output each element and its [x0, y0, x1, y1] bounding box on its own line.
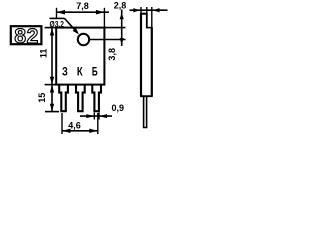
side view body	[140, 13, 153, 96]
side view lead	[144, 96, 147, 127]
dimension 11 left	[39, 28, 57, 85]
transistor body front view	[56, 28, 104, 85]
lead 2 (collector)	[76, 85, 85, 112]
svg-text:0,9: 0,9	[112, 103, 125, 113]
hole center line extended right	[89, 39, 125, 41]
side view thickness dimension line (2,8)	[130, 7, 168, 28]
dimension 2,8 (top edge to hole center)	[114, 1, 127, 46]
svg-text:15: 15	[37, 93, 47, 103]
svg-text:3,8: 3,8	[107, 48, 117, 61]
lead 3 (base)	[92, 85, 101, 112]
dimension 0,9 (lead width)	[80, 103, 124, 120]
hole diameter label Ø3,2 with shelf	[50, 18, 65, 28]
svg-text:Б: Б	[92, 65, 98, 79]
svg-text:82: 82	[14, 25, 39, 48]
mounting hole	[78, 34, 89, 45]
svg-text:2,8: 2,8	[114, 1, 127, 11]
dimension 4,6 (outer lead spacing)	[62, 113, 98, 134]
lead 1 (emitter)	[59, 85, 68, 112]
svg-text:7,8: 7,8	[76, 1, 89, 11]
svg-text:К: К	[77, 65, 83, 79]
dimension 15 left lower	[37, 85, 59, 112]
dimension 7,8 top	[57, 1, 110, 28]
svg-text:11: 11	[39, 49, 49, 59]
figure number box 82	[11, 25, 42, 48]
svg-text:З: З	[62, 65, 68, 79]
hole leader line with arrow	[65, 18, 79, 34]
body top edge extension right	[104, 27, 125, 29]
